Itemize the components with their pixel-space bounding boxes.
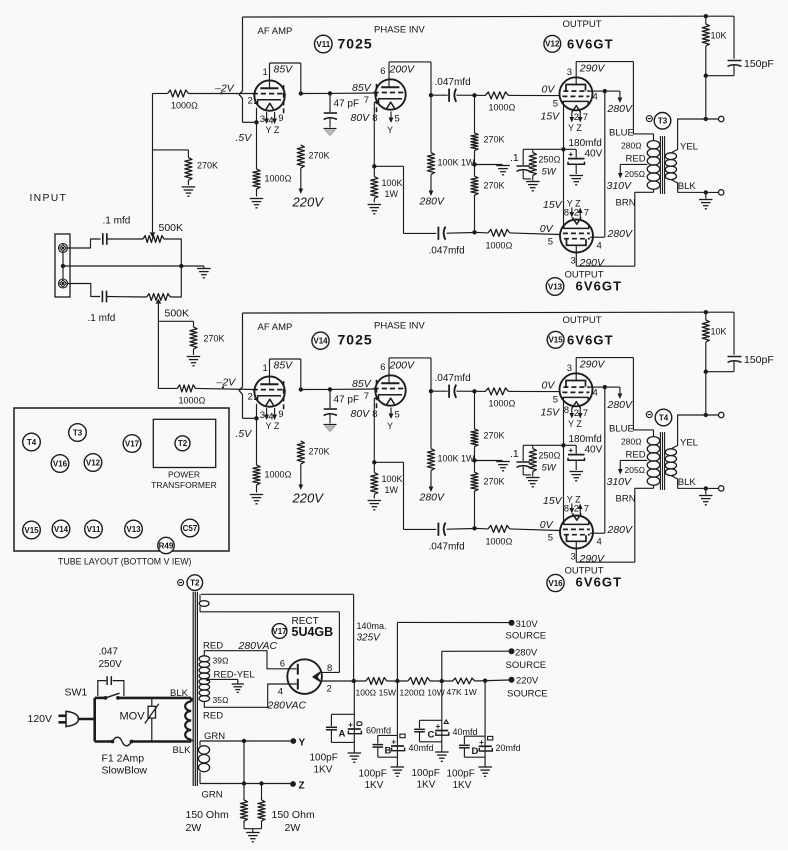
capacitor .047mfd top (ch2)	[431, 390, 448, 392]
svg-text:AF AMP: AF AMP	[258, 26, 293, 37]
capacitor 180mfd 40V (ch2)	[575, 445, 577, 454]
layout circle V12	[84, 454, 102, 472]
svg-text:47 pF: 47 pF	[334, 395, 360, 406]
svg-text:8: 8	[564, 405, 569, 416]
svg-text:270K: 270K	[484, 181, 505, 191]
svg-text:V13: V13	[126, 525, 141, 534]
node Z junction 2	[259, 781, 263, 785]
resistor 270K upper divider (ch2)	[474, 391, 476, 429]
tube V13-pos (ch2) heater hat	[572, 513, 581, 520]
node cathode junction V11a (ch1)	[254, 120, 258, 124]
tube label V15	[547, 331, 564, 348]
transformer T2 primary coil	[190, 698, 193, 702]
svg-text:280VAC: 280VAC	[267, 699, 307, 711]
tube V13-pos (ch1) envelope	[560, 220, 593, 253]
transformer core (ch2)	[659, 432, 661, 490]
capacitor .047mfd top (ch1)	[431, 94, 448, 96]
svg-text:V12: V12	[86, 458, 101, 467]
layout circle V15	[23, 521, 41, 539]
svg-text:9: 9	[278, 409, 283, 420]
ground speaker return (ch2)	[705, 488, 707, 494]
wire 10K node to output terminal (ch1)	[705, 76, 707, 119]
capacitor 150pF (ch1)	[706, 15, 734, 17]
svg-text:100pF: 100pF	[412, 768, 440, 779]
capacitor 150pF (ch2)	[706, 311, 734, 313]
svg-text:85V: 85V	[352, 378, 372, 390]
svg-text:8: 8	[372, 113, 377, 124]
resistor 100K 1W plate (ch2)	[430, 391, 432, 448]
ground 250 ohm (ch1)	[526, 181, 540, 183]
svg-text:6V6GT: 6V6GT	[567, 333, 614, 348]
svg-text:270K: 270K	[309, 151, 330, 161]
svg-text:V12: V12	[545, 40, 560, 49]
potentiometer 500K ch1	[143, 236, 164, 243]
wire center/ground lead	[63, 265, 181, 267]
svg-text:T3: T3	[73, 428, 83, 437]
wire upper input lead	[67, 239, 100, 248]
wire pot2 right leg	[170, 266, 181, 297]
wire plate drop to 220V (ch2)	[300, 359, 302, 390]
wire primary center tap (ch1)	[620, 163, 647, 165]
rectifier plate pin 4	[297, 679, 299, 690]
svg-text:2: 2	[248, 96, 253, 107]
wire screen V13 (ch1)	[590, 236, 605, 238]
svg-text:8: 8	[327, 663, 332, 674]
svg-text:40V: 40V	[585, 149, 603, 160]
svg-text:1KV: 1KV	[417, 780, 436, 791]
wire feedback to V11a cathode (ch2)	[243, 417, 257, 419]
wire plate lead V11a (ch1)	[269, 63, 271, 88]
tube V12-pos (ch1) heater hat	[572, 106, 581, 113]
wire plate drop to 220V (ch1)	[300, 63, 302, 94]
svg-text:V15: V15	[548, 336, 563, 345]
svg-text:1W: 1W	[385, 189, 399, 199]
node divider mid junction (ch2)	[472, 458, 476, 462]
node .047 junction top (ch1)	[429, 93, 433, 97]
tube V13-pos (ch2) envelope	[560, 516, 593, 549]
node top coupling junction (ch2)	[472, 389, 476, 393]
svg-text:47K 1W: 47K 1W	[447, 687, 477, 697]
resistor 1000 ohm grid V13 (ch1)	[488, 229, 510, 236]
heater arrows V13 (ch2)	[571, 504, 573, 510]
svg-text:100K: 100K	[382, 178, 403, 188]
ground speaker return (ch1)	[705, 192, 707, 198]
capacitor .1 mfd ch2	[101, 291, 103, 303]
svg-text:6: 6	[380, 66, 385, 77]
svg-text:Y: Y	[387, 421, 393, 431]
wire cathode bus (ch1)	[563, 104, 565, 227]
svg-text:Y Z: Y Z	[266, 421, 280, 431]
wire 280V source	[441, 651, 443, 681]
wire to mid ground (ch1)	[475, 164, 503, 166]
tube triode V1xa (ch1) grid (dashed)	[253, 93, 283, 95]
svg-text:5: 5	[548, 533, 553, 544]
svg-text:2: 2	[248, 392, 253, 403]
wire mains to switch/fuse	[78, 718, 95, 721]
wire BLUE plate-to-primary (ch1)	[632, 62, 634, 134]
resistor 270K upper divider (ch1)	[474, 95, 476, 133]
svg-text:+: +	[569, 150, 574, 159]
node screen junction V12 (ch1)	[603, 89, 607, 93]
svg-text:7025: 7025	[338, 332, 373, 348]
fuse F1	[95, 740, 113, 743]
svg-text:8: 8	[372, 409, 377, 420]
svg-text:250Ω: 250Ω	[539, 155, 561, 165]
layout circle T4	[23, 433, 41, 451]
svg-text:BLK: BLK	[170, 688, 189, 699]
svg-text:Z: Z	[299, 781, 305, 792]
svg-text:9: 9	[278, 113, 283, 124]
svg-text:MOV: MOV	[120, 711, 146, 723]
svg-text:V16: V16	[53, 459, 68, 468]
svg-text:GRN: GRN	[202, 790, 223, 801]
node Y junction	[242, 739, 246, 743]
ground 47pF (ch1)	[324, 128, 337, 130]
arrow to 220V source (ch2)	[300, 464, 302, 486]
resistor 1000 ohm cathode V11a (ch1)	[256, 122, 258, 169]
ground input 270K ch1	[182, 186, 196, 188]
tube triode V1xa (ch1) envelope	[254, 80, 284, 110]
node B+ junction 310V	[395, 679, 399, 683]
heater lead arrows V11a (ch2)	[266, 408, 268, 416]
wire cathode V11b (ch2)	[373, 398, 375, 462]
svg-text:85V: 85V	[352, 82, 372, 94]
rectifier filament	[313, 671, 322, 682]
resistor 1000 ohm grid V12 (ch2)	[485, 388, 508, 395]
svg-text:39Ω: 39Ω	[213, 656, 229, 666]
resistor 150 Ohm 2W right	[261, 784, 263, 801]
svg-text:85V: 85V	[274, 360, 294, 372]
svg-text:RED: RED	[626, 450, 646, 461]
svg-text:1000Ω: 1000Ω	[486, 241, 513, 251]
tube triode V1xb (ch2) cathode	[375, 395, 402, 399]
svg-text:RED-YEL: RED-YEL	[214, 670, 255, 681]
wire BRN primary-to-plate (ch2)	[653, 485, 655, 488]
layout circle V17	[123, 435, 141, 453]
tube V13-pos (ch1) heater hat	[572, 217, 581, 224]
wire cathode bus (ch2)	[563, 400, 565, 523]
svg-text:7: 7	[583, 408, 588, 419]
svg-text:6: 6	[280, 659, 285, 670]
tube triode V1xb (ch2) plate	[381, 382, 399, 384]
ground 150 ohm resistors	[246, 832, 260, 834]
svg-text:.047mfd: .047mfd	[435, 373, 471, 384]
wire plate lead V11b (ch2)	[388, 358, 390, 383]
resistor 270K lower divider (ch1)	[474, 165, 476, 177]
wire YEL secondary top (ch1)	[671, 119, 719, 153]
wire BLK secondary bottom (ch2)	[671, 476, 719, 489]
svg-text:3: 3	[567, 67, 572, 78]
tube V12-pos (ch2) control grid (dashed)	[562, 391, 589, 393]
wire lower input lead	[67, 284, 100, 297]
wire jack internal	[62, 252, 64, 279]
svg-text:100K 1W: 100K 1W	[438, 158, 476, 168]
arrow 280V screen (ch2)	[619, 387, 621, 395]
tube triode V1xa (ch2) plate	[260, 383, 278, 385]
svg-text:280Ω: 280Ω	[621, 141, 642, 151]
heater arrow V11b (ch2)	[390, 408, 392, 416]
svg-text:200V: 200V	[389, 360, 416, 372]
switch SW1	[95, 697, 106, 700]
arrow 280V screen (ch1)	[619, 91, 621, 99]
tube triode V1xb (ch2) side shield (dashed)	[376, 380, 378, 411]
svg-text:1000Ω: 1000Ω	[489, 103, 516, 113]
resistor 150 Ohm 2W left	[243, 741, 245, 800]
arrow 310V tap (ch1)	[619, 164, 621, 174]
capacitor .047mfd bottom (ch1)	[404, 232, 437, 234]
svg-text:4: 4	[593, 388, 598, 399]
svg-text:YEL: YEL	[680, 438, 698, 449]
tube triode V1xa (ch2) heater hat	[265, 399, 274, 406]
tube triode V1xb (ch2) heater hat	[386, 398, 395, 405]
svg-text:T2: T2	[178, 439, 188, 448]
wire plate lead V13 (ch1)	[575, 245, 577, 266]
svg-text:250Ω: 250Ω	[539, 451, 561, 461]
svg-text:1KV: 1KV	[453, 780, 472, 791]
resistor 47K 1W	[453, 678, 475, 684]
svg-text:270K: 270K	[484, 431, 505, 441]
wire feedback line left vertical (ch2)	[242, 313, 244, 387]
svg-text:8: 8	[564, 208, 569, 219]
wire screen bus (ch2)	[604, 387, 606, 533]
svg-text:3: 3	[571, 256, 576, 267]
transformer primary coil (ch1)	[647, 141, 660, 149]
ground capacitor A	[348, 752, 362, 754]
svg-text:310V: 310V	[516, 619, 539, 630]
svg-text:.1: .1	[510, 152, 519, 164]
svg-text:205Ω: 205Ω	[625, 465, 646, 475]
capacitor A 60mfd + 100pF	[331, 713, 354, 715]
svg-text:280V: 280V	[419, 492, 446, 504]
transformer primary coil (ch2)	[647, 437, 660, 445]
svg-text:100pF: 100pF	[447, 769, 475, 780]
tube V13-pos (ch1) cathode	[564, 225, 589, 228]
svg-text:280V: 280V	[419, 196, 446, 208]
capacitor .1 bypass (ch2)	[522, 445, 524, 461]
svg-text:1000Ω: 1000Ω	[171, 101, 198, 111]
node feedback/10K junction (ch1)	[704, 14, 708, 18]
svg-text:205Ω: 205Ω	[625, 169, 646, 179]
svg-text:15V: 15V	[543, 495, 563, 507]
svg-text:0V: 0V	[542, 380, 556, 392]
svg-text:D: D	[472, 746, 479, 757]
node 10K bottom junction (ch1)	[704, 74, 708, 78]
svg-text:220V: 220V	[292, 195, 325, 210]
capacitor .1 mfd ch1	[102, 233, 104, 245]
svg-text:1000Ω: 1000Ω	[265, 470, 292, 480]
arrow to 220V source (ch1)	[300, 168, 302, 190]
layout circle V14	[52, 520, 70, 538]
capacitor .047 250V line bypass	[98, 681, 106, 696]
capacitor 180mfd 40V (ch1)	[575, 149, 577, 158]
svg-text:.047mfd: .047mfd	[429, 542, 465, 553]
svg-text:V17: V17	[125, 439, 140, 448]
svg-text:BLK: BLK	[678, 477, 697, 488]
capacitor C 40mfd + 100pF	[441, 681, 443, 752]
svg-text:PHASE INV: PHASE INV	[374, 321, 425, 332]
tube V12-pos (ch2) envelope	[560, 373, 593, 406]
svg-text:5: 5	[553, 99, 558, 110]
svg-text:RED: RED	[203, 711, 223, 722]
resistor 10K feedback (ch2)	[705, 312, 707, 320]
resistor 250 ohm 5W cathode (ch1)	[532, 149, 534, 152]
tube V12-pos (ch1) plate	[566, 85, 586, 91]
svg-text:INPUT: INPUT	[30, 193, 68, 204]
tube triode V1xa (ch1) heater hat	[265, 103, 274, 110]
svg-text:15V: 15V	[541, 407, 561, 419]
svg-text:6V6GT: 6V6GT	[576, 279, 623, 294]
wire BRN primary-to-plate (ch1)	[653, 189, 655, 192]
svg-text:V17: V17	[272, 627, 287, 636]
svg-text:1000Ω: 1000Ω	[489, 399, 516, 409]
node B+ junction 220V	[483, 679, 487, 683]
wire plate lead V11a (ch2)	[269, 359, 271, 384]
svg-text:5U4GB: 5U4GB	[292, 625, 334, 639]
tube triode V1xb (ch1) side shield (dashed)	[376, 84, 378, 115]
svg-text:V11: V11	[87, 525, 101, 534]
svg-text:R49: R49	[159, 541, 174, 550]
resistor 1200 ohm 10W	[408, 678, 430, 685]
svg-text:Y Z: Y Z	[568, 123, 582, 133]
wire HV top lead RED to pin 6	[204, 651, 296, 669]
terminal 280V source	[509, 648, 515, 654]
arrow to 280V below plate resistor (ch1)	[430, 174, 432, 192]
svg-text:20mfd: 20mfd	[496, 743, 521, 753]
tube triode V1xa (ch2) cathode	[254, 396, 281, 400]
wire feedback to V11a cathode (ch1)	[243, 121, 257, 123]
tube V13-pos (ch2) control grid (dashed)	[563, 528, 590, 530]
node 47pF junction (ch1)	[328, 91, 332, 95]
tube V13-pos (ch2) screen grid (dashed)	[564, 534, 590, 536]
wire screen bus (ch1)	[604, 91, 606, 237]
svg-text:–2V: –2V	[214, 83, 235, 95]
tube V13-pos (ch1) control grid (dashed)	[563, 232, 590, 234]
svg-text:10K: 10K	[711, 327, 727, 337]
ground capacitor C	[435, 751, 449, 753]
svg-text:2: 2	[574, 208, 579, 219]
svg-text:7: 7	[364, 391, 369, 402]
svg-text:3: 3	[571, 552, 576, 563]
svg-text:C: C	[428, 730, 435, 741]
svg-text:310V: 310V	[607, 180, 633, 192]
svg-text:C57: C57	[183, 524, 198, 533]
svg-text:F1 2Amp: F1 2Amp	[102, 753, 145, 765]
wire screen V13 (ch2)	[590, 532, 605, 534]
svg-text:150pF: 150pF	[744, 58, 774, 70]
tube V13-pos (ch2) plate	[567, 535, 587, 541]
tube triode V1xa (ch1) side shield (dashed)	[283, 85, 285, 116]
ground 47pF (ch2)	[324, 424, 337, 426]
transformer core (ch1)	[659, 136, 661, 194]
wire pot1 wiper up	[152, 94, 154, 233]
svg-text:0V: 0V	[540, 223, 554, 235]
node feedback/10K junction (ch2)	[704, 310, 708, 314]
svg-text:V13: V13	[548, 282, 563, 291]
tube V12-pos (ch2) cathode	[563, 397, 588, 400]
wire 310V source	[396, 622, 398, 681]
svg-text:15V: 15V	[543, 199, 563, 211]
input jack lower contact	[59, 279, 68, 288]
node jack mid junction	[61, 264, 65, 268]
transformer T2 circle label	[178, 580, 184, 586]
terminal speaker + (ch1)	[719, 116, 724, 121]
svg-text:100Ω 15W: 100Ω 15W	[356, 688, 397, 698]
wire HV center tap RED-YEL	[208, 678, 238, 680]
svg-text:Y Z: Y Z	[567, 495, 581, 505]
wire cathode V11a (ch2)	[256, 404, 258, 419]
ground 250 ohm (ch2)	[526, 477, 540, 479]
wire cathode node line (ch1)	[523, 148, 576, 150]
svg-text:500K: 500K	[165, 308, 190, 320]
svg-text:GRN: GRN	[204, 731, 225, 742]
svg-text:100pF: 100pF	[310, 753, 338, 764]
node screen junction V12 (ch2)	[603, 385, 607, 389]
wire 5V bottom lead to pin 8	[338, 612, 340, 673]
svg-text:RED: RED	[626, 154, 646, 165]
wire to mid ground (ch2)	[475, 460, 503, 462]
svg-text:T3: T3	[658, 117, 668, 126]
svg-text:4: 4	[593, 92, 598, 103]
tube label V16	[547, 574, 564, 591]
svg-text:BRN: BRN	[616, 494, 636, 505]
svg-text:Y Z: Y Z	[567, 199, 581, 209]
tube V12-pos (ch2) heater hat	[572, 402, 581, 409]
svg-text:150 Ohm: 150 Ohm	[186, 809, 229, 821]
svg-text:2: 2	[574, 504, 579, 515]
transformer T2 core	[192, 592, 194, 786]
wire BLK secondary bottom (ch1)	[671, 180, 719, 193]
capacitor 47pF (ch2)	[329, 389, 331, 408]
layout circle V13	[125, 520, 143, 538]
svg-text:BRN: BRN	[616, 198, 636, 209]
terminal Y	[290, 738, 296, 744]
svg-text:4: 4	[597, 537, 602, 548]
svg-text:40V: 40V	[585, 445, 603, 456]
node B+ junction A	[352, 679, 356, 683]
svg-text:280Ω: 280Ω	[621, 437, 642, 447]
svg-text:3: 3	[567, 363, 572, 374]
layout label T2	[175, 436, 190, 451]
wire feedback line top (ch2)	[243, 311, 706, 314]
capacitor D 20mfd + 100pF	[484, 681, 486, 767]
svg-text:220V: 220V	[292, 491, 325, 506]
svg-text:.047mfd: .047mfd	[435, 77, 471, 88]
ground input 270K ch2	[187, 356, 200, 358]
capacitor B 40mfd + 100pF	[396, 681, 398, 767]
resistor 1000 ohm grid V12 (ch1)	[485, 92, 508, 99]
svg-text:T4: T4	[27, 438, 37, 447]
wire cathode V11a (ch1)	[256, 108, 258, 123]
input jack body	[55, 234, 70, 297]
heater arrows V12 (ch1)	[571, 113, 573, 119]
svg-text:40mfd: 40mfd	[409, 743, 434, 753]
svg-text:SlowBlow: SlowBlow	[102, 765, 148, 777]
svg-text:40mfd: 40mfd	[453, 727, 478, 737]
svg-text:3: 3	[260, 114, 265, 125]
svg-text:V14: V14	[313, 337, 328, 346]
resistor 270K input ch2	[193, 321, 195, 327]
svg-text:35Ω: 35Ω	[213, 695, 229, 705]
resistor 1000 ohm grid stopper ch1	[168, 90, 189, 97]
wire Z lead	[200, 783, 290, 785]
svg-text:7025: 7025	[338, 36, 373, 52]
wire plate lead V12 (ch2)	[575, 358, 577, 381]
node plate/grid-wire junction (ch1)	[299, 91, 303, 95]
wire plate lead V12 (ch1)	[575, 62, 577, 85]
node 10K bottom junction (ch2)	[704, 370, 708, 374]
heater lead arrows V11a (ch1)	[266, 112, 268, 120]
svg-text:10K: 10K	[711, 31, 727, 41]
